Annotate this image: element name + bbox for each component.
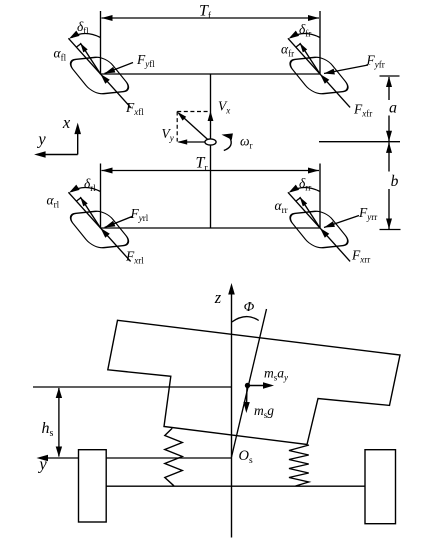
wire: wheel plane line rear-left (F_xrl line of action) (68, 192, 130, 261)
arrowhead: h_s bottom (56, 447, 62, 458)
roll angle arc Phi (232, 317, 259, 322)
arrowhead: wheel velocity rear-left (80, 197, 87, 206)
arrowhead: F_xrr at contact point (320, 228, 329, 238)
arrowhead: F_y front-left (105, 67, 116, 74)
tire front-left (66, 56, 134, 94)
wire: wheel velocity line rear-right (300, 197, 320, 228)
svg-text:Φ: Φ (244, 300, 255, 315)
arrowhead: delta_fl arc (69, 31, 80, 39)
slip angle arc alpha_fr (296, 44, 301, 47)
svg-text:y: y (37, 455, 47, 474)
arrowhead: F_y rear-left (105, 221, 116, 228)
wire: vertical reference line front-left (100, 11, 102, 74)
dimension tick bottom (rear axle level) (380, 229, 401, 231)
slip angle arc alpha_rl (76, 198, 81, 201)
axis y (top diagram) (42, 154, 78, 156)
arrowhead: V_x (on centerline above CG) (208, 111, 214, 121)
arrowhead: axis y bottom (37, 455, 49, 462)
wire: CG height level line (33, 386, 232, 388)
svg-text:a: a (389, 100, 397, 117)
gravity arrow m_s g (246, 386, 248, 405)
left wheel (79, 450, 107, 522)
dimension line T_f (102, 17, 320, 19)
arrowhead: axis z (228, 283, 235, 295)
tilted roll axis line through sprung mass (232, 309, 267, 457)
arrowhead: wheel velocity front-right (300, 43, 307, 52)
axis y (roll model) (42, 457, 232, 459)
dimension line b (broken around label) (388, 142, 390, 171)
arrowhead: a top (386, 77, 392, 88)
slip angle arc alpha_rr (296, 198, 301, 201)
wire: vertical reference line rear-left (100, 164, 102, 229)
wire: wheel velocity line front-right (300, 43, 320, 74)
wire: wheel plane line rear-right (F_xrr line of action) (288, 192, 350, 261)
arrowhead: delta_fr arc (289, 31, 300, 39)
velocity component V_y (179, 141, 206, 143)
arrowhead: T_r left (102, 168, 113, 174)
left spring (165, 428, 183, 486)
arrowhead: axis y (34, 151, 46, 158)
velocity vector V (resultant) (179, 113, 211, 142)
lateral force arrow m_s a_y (248, 385, 267, 387)
yaw rate curved arrow omega_r (224, 138, 231, 151)
arrowhead: V_y (177, 139, 187, 144)
wire: F_y leader rear-right (324, 216, 359, 228)
right spring (289, 445, 309, 486)
arrowhead: F_xrl at contact point (101, 228, 110, 238)
tire rear-left (66, 210, 134, 248)
arrowhead: F_xfl at contact point (101, 74, 110, 84)
wire: vehicle centerline (210, 74, 212, 228)
wire: F_y leader front-left (105, 63, 134, 74)
wire: wheel plane line front-left (F_xfl line of action) (68, 38, 130, 107)
wire: front axle line (101, 73, 321, 75)
right wheel (365, 450, 396, 524)
wire: CG level line right (319, 141, 400, 143)
arrowhead: T_f left (102, 15, 113, 21)
arrowhead: F_y front-right (324, 69, 335, 75)
arrowhead: T_f right (308, 15, 319, 21)
arrowhead: b top (386, 142, 392, 153)
svg-text:y: y (36, 130, 46, 149)
CG ellipse (vehicle centre of gravity) (205, 139, 216, 145)
axis x (top diagram) (77, 131, 79, 155)
sprung mass CG dot (245, 383, 250, 388)
steering angle arc delta_fl (72, 34, 101, 38)
arrowhead: T_r right (308, 168, 319, 174)
sprung mass body polygon (108, 320, 400, 444)
arrowhead: delta_rl arc (69, 185, 80, 193)
wire: F_y leader rear-left (105, 217, 133, 228)
wire: axle line (roll model) (106, 485, 365, 487)
wire: vertical reference line rear-right (319, 164, 321, 229)
wire: dashed parallelogram top edge (177, 111, 210, 113)
arrowhead: F_y rear-right (324, 221, 335, 227)
arrowhead: F_xfr at contact point (320, 74, 329, 84)
dimension tick top (front axle level) (380, 75, 400, 77)
wire: dashed parallelogram left edge (176, 112, 178, 142)
wire: vertical reference line front-right (319, 11, 321, 74)
steering angle arc delta_rr (291, 188, 320, 192)
tire rear-right (285, 210, 353, 248)
steering angle arc delta_fr (291, 34, 320, 38)
dimension h_s (58, 388, 60, 457)
arrowhead: resultant V (177, 112, 186, 121)
svg-text:b: b (391, 173, 399, 190)
arrowhead: omega_r (222, 133, 233, 139)
axis z (roll model) (231, 292, 233, 538)
arrowhead: m_s g (243, 402, 249, 413)
wire: wheel plane line front-right (F_xfr line of action) (288, 38, 350, 107)
arrowhead: h_s top (56, 388, 62, 399)
arrowhead: b bottom (386, 219, 392, 230)
slip angle arc alpha_fl (76, 44, 81, 47)
wire: F_y leader front-right (324, 65, 368, 74)
arrowhead: m_s a_y (263, 382, 274, 388)
arrowhead: delta_rr arc (289, 185, 300, 193)
wire: wheel velocity line front-left (80, 43, 100, 74)
steering angle arc delta_rl (72, 188, 101, 192)
arrowhead: a bottom (386, 131, 392, 142)
svg-text:z: z (214, 288, 222, 307)
arrowhead: wheel velocity front-left (80, 43, 87, 52)
arrowhead: axis x (74, 123, 81, 135)
arrowhead: wheel velocity rear-right (300, 197, 307, 206)
wire: wheel velocity line rear-left (80, 197, 100, 228)
dimension line T_r (102, 170, 320, 172)
tire front-right (285, 56, 353, 94)
wire: rear axle line (101, 227, 321, 229)
dimension line a (broken around label) (388, 77, 390, 100)
svg-text:x: x (62, 113, 71, 132)
